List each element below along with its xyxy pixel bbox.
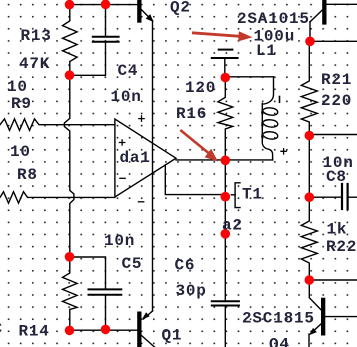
svg-text:10: 10 <box>10 143 31 161</box>
svg-text:10n: 10n <box>104 232 135 250</box>
svg-text:R22: R22 <box>326 238 357 256</box>
svg-text:R13: R13 <box>21 27 52 45</box>
svg-text:120: 120 <box>185 79 216 97</box>
svg-text:R14: R14 <box>19 323 50 341</box>
svg-text:C6: C6 <box>175 257 196 275</box>
svg-text:R16: R16 <box>176 105 207 123</box>
svg-text:47K: 47K <box>19 55 50 73</box>
svg-text:C4: C4 <box>118 62 139 80</box>
svg-text:C8: C8 <box>326 168 347 186</box>
svg-text:C: C <box>0 320 3 338</box>
svg-text:2SC1815: 2SC1815 <box>242 310 315 328</box>
svg-text:da1: da1 <box>120 149 151 167</box>
svg-text:T1: T1 <box>242 186 263 204</box>
svg-text:1k: 1k <box>327 221 348 239</box>
svg-text:R21: R21 <box>321 71 352 89</box>
svg-text:Q4: Q4 <box>269 336 290 347</box>
svg-text:a2: a2 <box>222 217 243 235</box>
svg-text:R8: R8 <box>17 166 38 184</box>
svg-text:C5: C5 <box>122 255 143 273</box>
svg-text:30p: 30p <box>176 282 207 300</box>
svg-text:2SA1015: 2SA1015 <box>237 10 310 28</box>
svg-text:220: 220 <box>321 92 352 110</box>
svg-text:10: 10 <box>7 78 28 96</box>
svg-text:10n: 10n <box>111 88 142 106</box>
svg-text:Q1: Q1 <box>162 326 183 344</box>
svg-text:L1: L1 <box>256 42 277 60</box>
svg-text:R9: R9 <box>11 95 32 113</box>
svg-text:Q2: Q2 <box>170 0 191 17</box>
